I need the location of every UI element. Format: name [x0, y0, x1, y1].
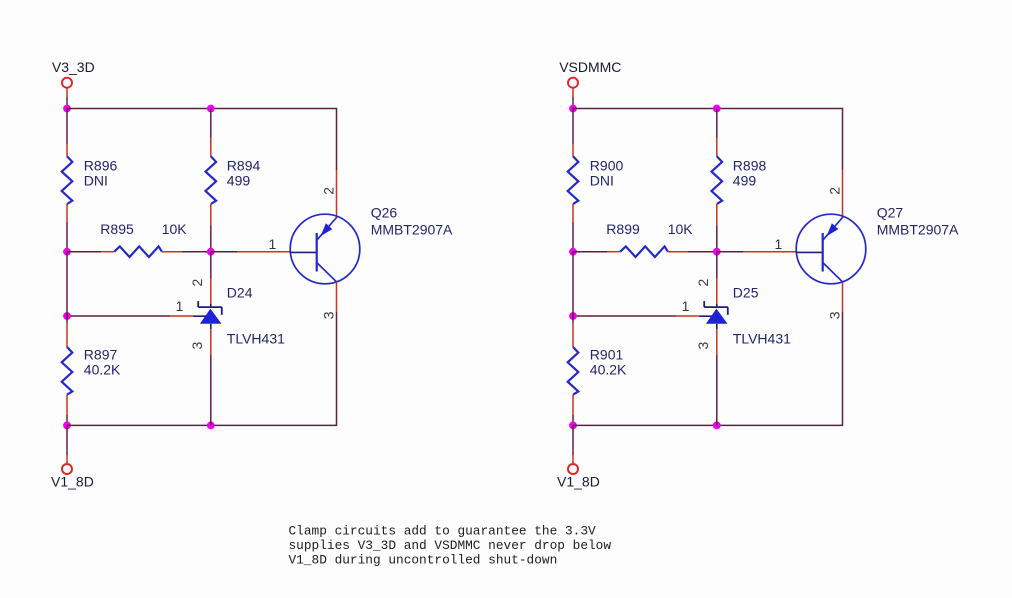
svg-text:MMBT2907A: MMBT2907A — [371, 222, 453, 238]
wire mid-left junction to R899 — [573, 251, 607, 253]
wire bottom bus to Q26 collector — [67, 312, 337, 425]
svg-text:D25: D25 — [733, 284, 759, 300]
svg-text:40.2K: 40.2K — [84, 362, 121, 378]
svg-text:2: 2 — [827, 187, 843, 195]
svg-text:3: 3 — [695, 342, 711, 350]
svg-text:R900: R900 — [590, 157, 624, 173]
resistor R896 — [62, 156, 73, 204]
svg-text:3: 3 — [189, 342, 205, 350]
wire R898 to mid-middle junction — [716, 204, 718, 226]
wire R901 to bottom bus — [572, 395, 574, 415]
resistor R894 — [206, 156, 217, 204]
svg-text:V3_3D: V3_3D — [52, 59, 95, 75]
port terminal VSDMMC — [568, 78, 578, 88]
svg-text:1: 1 — [176, 298, 184, 314]
svg-text:V1_8D during uncontrolled shut: V1_8D during uncontrolled shut-down — [289, 553, 558, 568]
wire D24 ref to left column — [67, 315, 170, 317]
wire middle column to R898 — [716, 109, 718, 139]
svg-text:1: 1 — [269, 236, 277, 252]
svg-text:R901: R901 — [590, 347, 624, 363]
port terminal V1_8D — [62, 464, 72, 474]
svg-text:R898: R898 — [733, 157, 767, 173]
junction mid-middle — [207, 248, 215, 256]
wire mid-middle junction to D25 cathode — [716, 252, 718, 278]
wire left column mid to ref row — [66, 252, 68, 316]
wire bottom bus to Q27 collector — [573, 312, 843, 425]
svg-text:2: 2 — [321, 187, 337, 195]
svg-text:TLVH431: TLVH431 — [227, 330, 285, 346]
junction bottom-middle — [713, 422, 721, 430]
port terminal V1_8D — [568, 464, 578, 474]
resistor R897 — [62, 347, 73, 395]
wire R897 to bottom bus — [66, 395, 68, 415]
junction ref-left — [569, 312, 577, 320]
transistor Q26 (PNP) — [290, 214, 360, 284]
svg-text:10K: 10K — [668, 221, 694, 237]
svg-text:MMBT2907A: MMBT2907A — [877, 222, 959, 238]
resistor R901 — [568, 347, 579, 395]
wire D25 ref to left column — [573, 315, 676, 317]
wire R896 to mid-left junction — [66, 204, 68, 222]
svg-text:TLVH431: TLVH431 — [733, 330, 791, 346]
svg-text:Q27: Q27 — [877, 205, 904, 221]
svg-text:Q26: Q26 — [371, 205, 398, 221]
wire D24 anode to bottom bus — [210, 329, 212, 355]
wire mid-middle junction to D24 cathode — [210, 252, 212, 278]
junction mid-left — [569, 248, 577, 256]
junction bottom-middle — [207, 422, 215, 430]
wire left column mid to ref row — [572, 252, 574, 316]
junction ref-left — [63, 312, 71, 320]
svg-text:R897: R897 — [84, 347, 118, 363]
junction VSDMMC top-left — [569, 105, 577, 113]
svg-text:DNI: DNI — [84, 172, 108, 188]
svg-text:V1_8D: V1_8D — [557, 474, 600, 490]
svg-text:2: 2 — [695, 279, 711, 287]
svg-text:40.2K: 40.2K — [590, 362, 627, 378]
svg-text:DNI: DNI — [590, 172, 614, 188]
svg-text:1: 1 — [775, 236, 783, 252]
wire base of Q26 — [211, 251, 237, 253]
junction top-middle — [713, 105, 721, 113]
svg-text:10K: 10K — [162, 221, 188, 237]
svg-text:D24: D24 — [227, 284, 253, 300]
wire left column to R896 — [66, 109, 68, 145]
svg-text:3: 3 — [827, 311, 843, 319]
wire left column to R900 — [572, 109, 574, 145]
wire R895 to mid-middle junction — [162, 251, 182, 253]
svg-text:R896: R896 — [84, 157, 118, 173]
shunt regulator D24 TLVH431 — [193, 301, 222, 329]
svg-text:Clamp circuits add to guarante: Clamp circuits add to guarantee the 3.3V — [289, 523, 596, 538]
svg-text:1: 1 — [682, 298, 690, 314]
wire top bus V3_3D to Q26 emitter — [67, 109, 337, 171]
svg-text:VSDMMC: VSDMMC — [559, 59, 621, 75]
wire ref row to R897 — [66, 316, 68, 323]
wire V1_8D stub — [572, 425, 574, 455]
svg-text:499: 499 — [227, 172, 251, 188]
junction bottom-left — [569, 422, 577, 430]
port terminal V3_3D — [62, 78, 72, 88]
svg-text:3: 3 — [321, 311, 337, 319]
wire VSDMMC stub to top bus — [572, 87, 574, 97]
wire D25 anode to bottom bus — [716, 329, 718, 355]
wire middle column to R894 — [210, 109, 212, 139]
junction V3_3D top-left — [63, 105, 71, 113]
wire ref row to R901 — [572, 316, 574, 323]
wire R900 to mid-left junction — [572, 204, 574, 222]
wire mid-left junction to R895 — [67, 251, 101, 253]
junction mid-left — [63, 248, 71, 256]
svg-text:supplies V3_3D and VSDMMC neve: supplies V3_3D and VSDMMC never drop bel… — [289, 538, 612, 553]
svg-text:R894: R894 — [227, 157, 261, 173]
wire top bus VSDMMC to Q27 emitter — [573, 109, 843, 171]
wire V1_8D stub — [66, 425, 68, 455]
transistor Q27 (PNP) — [796, 214, 866, 284]
junction top-middle — [207, 105, 215, 113]
svg-text:499: 499 — [733, 172, 757, 188]
svg-text:V1_8D: V1_8D — [51, 474, 94, 490]
svg-text:R899: R899 — [606, 221, 640, 237]
resistor R898 — [712, 156, 723, 204]
wire R894 to mid-middle junction — [210, 204, 212, 226]
wire base of Q27 — [717, 251, 743, 253]
svg-text:2: 2 — [189, 279, 205, 287]
wire R899 to mid-middle junction — [668, 251, 688, 253]
resistor R900 — [568, 156, 579, 204]
shunt regulator D25 TLVH431 — [699, 301, 728, 329]
wire V3_3D stub to top bus — [66, 87, 68, 97]
junction bottom-left — [63, 422, 71, 430]
resistor R899 — [620, 246, 668, 257]
junction mid-middle — [713, 248, 721, 256]
svg-text:R895: R895 — [100, 221, 134, 237]
resistor R895 — [114, 246, 162, 257]
